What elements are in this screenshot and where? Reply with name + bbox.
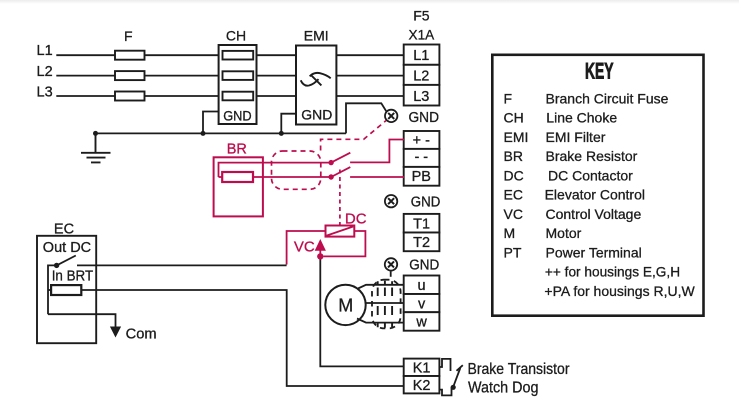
wire motor v	[366, 302, 404, 304]
wire ground bus	[96, 132, 347, 134]
svg-text:VC: VC	[504, 206, 523, 222]
terminal X1A w	[404, 312, 440, 331]
KEY legend box	[492, 55, 703, 316]
svg-text:Brake Resistor: Brake Resistor	[546, 148, 638, 164]
wire In BRT to K2	[81, 290, 404, 386]
terminal X1A L2	[404, 65, 440, 85]
svg-text:v: v	[418, 296, 426, 312]
wire EMI GND stub	[281, 114, 296, 134]
svg-text:T1: T1	[413, 216, 430, 232]
svg-text:BR: BR	[227, 141, 247, 157]
terminal K1	[404, 359, 440, 376]
svg-text:CH: CH	[226, 28, 246, 44]
svg-text:K2: K2	[413, 378, 431, 394]
linkage dashed DC	[339, 170, 341, 226]
arrow Com head	[110, 327, 121, 338]
node VC junction dot	[317, 253, 323, 259]
svg-text:Brake Transistor: Brake Transistor	[468, 361, 570, 378]
svg-text:u: u	[418, 278, 426, 294]
svg-text:M: M	[504, 225, 516, 241]
shield hatch line 2	[384, 281, 386, 328]
svg-text:L2: L2	[37, 64, 53, 80]
svg-text:F: F	[504, 90, 513, 106]
svg-text:VC: VC	[294, 239, 315, 256]
svg-text:M: M	[338, 295, 353, 315]
red circuit group	[214, 121, 404, 265]
svg-text:+ -: + -	[413, 133, 430, 149]
svg-text:EMI: EMI	[504, 129, 529, 145]
fuse F (L2)	[115, 71, 145, 80]
wire Com	[48, 314, 116, 327]
wire motor u	[358, 285, 404, 289]
svg-text:L3: L3	[413, 89, 429, 105]
wire motor w	[357, 319, 404, 323]
wire top contact to plus terminal	[350, 140, 404, 163]
wire In BRT stub	[48, 289, 51, 291]
node DC contact bottom hinge	[328, 174, 333, 179]
svg-text:X1A: X1A	[409, 26, 435, 42]
wire Out DC to DC coil	[77, 264, 287, 266]
choke winding L3	[223, 92, 254, 101]
wire EC left rail	[48, 265, 57, 314]
wire L3 line	[56, 95, 404, 97]
fuse F (L1)	[115, 51, 145, 60]
terminal X1A u	[404, 276, 440, 295]
red text labels	[227, 141, 367, 255]
svg-text:Out DC: Out DC	[43, 240, 91, 256]
svg-text:L3: L3	[37, 85, 53, 101]
node junction ground bus at earth	[93, 131, 98, 136]
switch blade watch dog	[453, 368, 460, 387]
arrow VC head	[315, 239, 326, 251]
node watch dog dot	[451, 385, 456, 390]
connector tab K1	[439, 359, 450, 371]
switch Out DC blade	[57, 256, 76, 266]
node DC contact top hinge	[328, 160, 333, 165]
switch DC contact bottom blade	[331, 167, 350, 177]
wire BR top	[219, 163, 332, 177]
node junction EMI gnd	[279, 131, 284, 136]
wire L1 line	[56, 54, 404, 56]
svg-text:Branch Circuit Fuse: Branch Circuit Fuse	[546, 90, 669, 106]
wire dashed shield to GND	[321, 121, 386, 151]
svg-text:GND: GND	[409, 110, 440, 126]
wire L2 line	[56, 75, 404, 77]
wire VC node to K1	[320, 256, 404, 366]
contact tick brake transistor	[457, 365, 463, 371]
GND symbol circle-X mid	[385, 195, 397, 207]
ground symbol	[81, 133, 111, 162]
connector tab K2	[439, 388, 451, 396]
node switch hinge dot	[54, 263, 59, 268]
EMI filter box	[296, 46, 336, 125]
wire BR resistor left stub	[219, 176, 223, 178]
svg-text:Control Voltage: Control Voltage	[546, 206, 642, 222]
svg-text:PT: PT	[504, 244, 522, 260]
choke winding L1	[223, 51, 254, 60]
wire CH GND stub	[203, 112, 219, 134]
DC coil diagonal	[327, 227, 354, 236]
wire DC coil right to VC node	[324, 231, 366, 256]
terminal X1A minus-minus	[404, 149, 440, 167]
svg-text:CH: CH	[504, 110, 524, 126]
node junction CH gnd	[201, 131, 206, 136]
terminal X1A L1	[404, 45, 440, 65]
terminal X1A L3	[404, 85, 440, 106]
svg-text:L2: L2	[413, 69, 429, 85]
GND symbol circle-X top	[385, 110, 397, 122]
shield hatch line 3	[391, 281, 393, 327]
svg-text:PB: PB	[412, 169, 431, 185]
arrow VC shaft	[319, 250, 321, 257]
EMI filter curve symbol	[301, 73, 331, 86]
wire DC coil left to Out DC node	[287, 231, 326, 265]
svg-text:EC: EC	[504, 187, 523, 203]
svg-text:Line Choke: Line Choke	[546, 110, 617, 126]
svg-text:GND: GND	[223, 107, 252, 123]
svg-text:In BRT: In BRT	[52, 269, 94, 285]
svg-text:T2: T2	[413, 235, 430, 251]
svg-text:EMI Filter: EMI Filter	[546, 129, 606, 145]
shield dashed blob motor cable	[372, 280, 401, 329]
svg-text:F: F	[124, 28, 133, 44]
svg-text:Watch Dog: Watch Dog	[468, 379, 539, 396]
brake resistor BR box	[214, 157, 263, 216]
wire PE to GND terminal	[346, 103, 387, 133]
terminal X1A PB	[404, 167, 440, 186]
resistor In BRT	[51, 285, 81, 295]
wire shield to GND dashed stub	[390, 272, 392, 277]
svg-text:w: w	[415, 315, 427, 331]
terminal X1A plus-minus	[404, 131, 440, 149]
svg-text:DC Contactor: DC Contactor	[548, 167, 633, 183]
svg-text:++ for housings E,G,H: ++ for housings E,G,H	[545, 264, 680, 280]
motor M circle	[325, 285, 365, 325]
GND symbol circle-X motor	[385, 258, 397, 270]
svg-text:Power Terminal: Power Terminal	[546, 244, 642, 260]
resistor BR element	[222, 172, 253, 182]
line choke CH box	[219, 45, 257, 124]
svg-text:L1: L1	[37, 43, 53, 59]
switch DC contact top blade	[331, 153, 350, 163]
svg-text:EMI: EMI	[304, 28, 329, 44]
KEY legend text	[504, 59, 696, 299]
svg-text:Com: Com	[126, 326, 157, 343]
svg-text:GND: GND	[411, 195, 441, 211]
svg-text:EC: EC	[54, 222, 74, 238]
svg-text:L1: L1	[413, 48, 429, 64]
svg-text:K1: K1	[413, 360, 431, 376]
choke winding L2	[223, 71, 254, 80]
svg-text:+PA for housings R,U,W: +PA for housings R,U,W	[544, 283, 695, 299]
terminal X1A T1	[404, 214, 440, 233]
svg-text:DC: DC	[504, 167, 524, 183]
svg-text:GND: GND	[301, 107, 332, 123]
terminal X1A v	[404, 294, 440, 312]
DC contactor coil	[326, 226, 355, 237]
shield hatch line 1	[377, 281, 379, 327]
fuse F (L3)	[115, 92, 145, 101]
svg-text:F5: F5	[413, 7, 430, 23]
svg-text:DC: DC	[345, 210, 367, 227]
svg-text:GND: GND	[409, 258, 439, 274]
elevator control EC box	[37, 236, 96, 343]
terminal K2	[404, 376, 440, 393]
wire bottom contact to PB	[350, 176, 404, 178]
terminal X1A T2	[404, 233, 440, 252]
svg-text:KEY: KEY	[585, 59, 614, 84]
shield dashed stadium BR cable	[272, 151, 321, 189]
svg-text:Elevator Control: Elevator Control	[545, 187, 645, 203]
svg-text:- -: - -	[414, 150, 428, 166]
svg-text:Motor: Motor	[546, 225, 582, 241]
svg-text:BR: BR	[504, 148, 523, 164]
wire BR bottom	[253, 176, 331, 178]
